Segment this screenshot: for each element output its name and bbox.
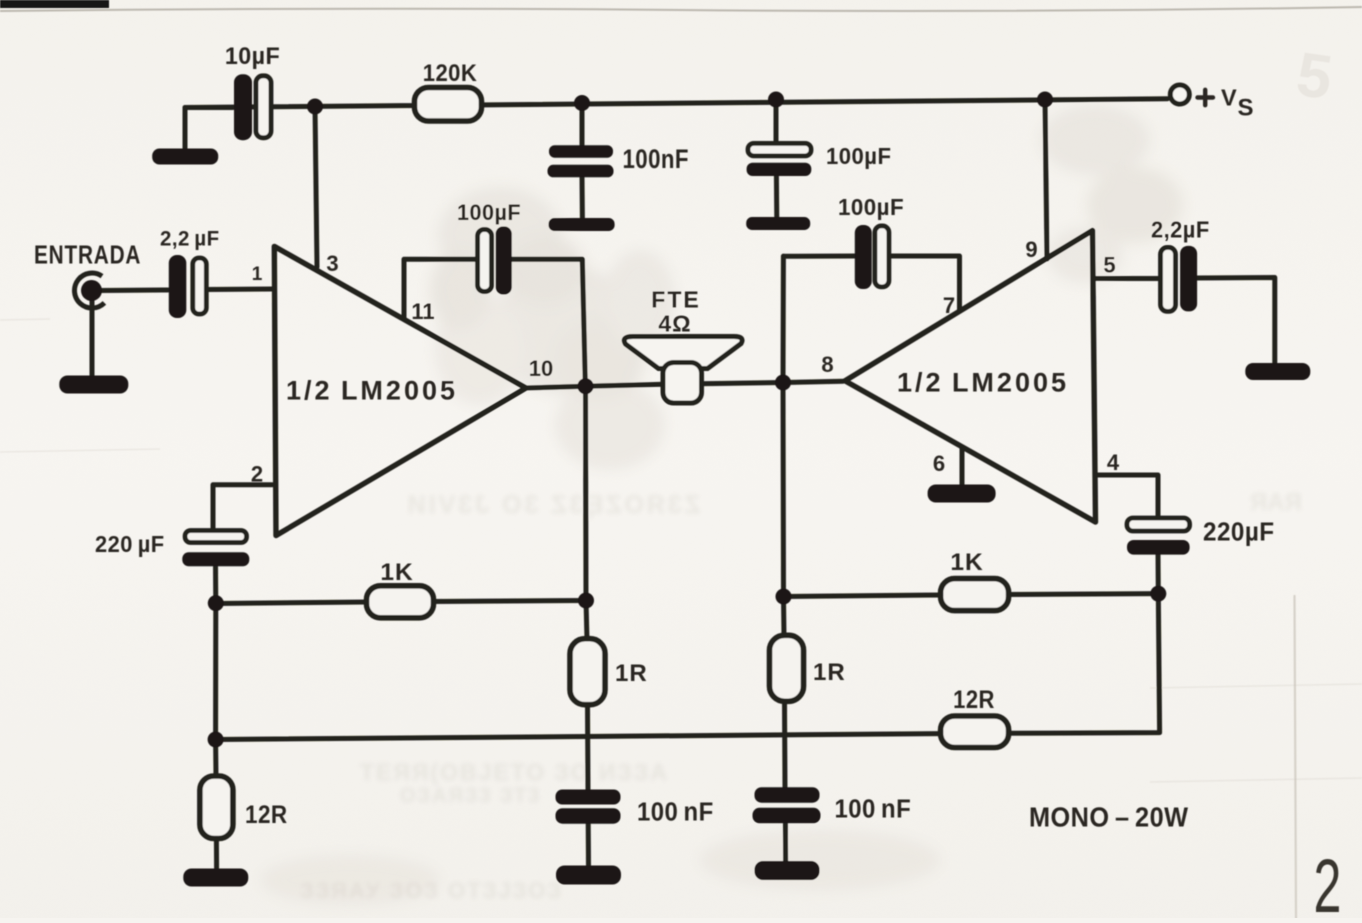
capacitor C5 100uF (- plate) [478, 230, 492, 292]
svg-text:Z3ЯOZĘ3Z 3О J3VIИ: Z3ЯOZĘ3Z 3О J3VIИ [405, 491, 700, 519]
junction J11 (left output lower node) [578, 593, 594, 609]
svg-text:2: 2 [251, 462, 263, 487]
ground G7 (left zobel) [556, 866, 621, 885]
svg-text:ENTRADA: ENTRADA [34, 240, 141, 269]
page artifact: bleed-through ghost blobs [260, 105, 1183, 905]
resistor R8 1R body (right) [770, 635, 804, 701]
capacitor C6 100uF (+ plate) [855, 225, 872, 289]
wire: pin11 feedback loop (left) [404, 259, 479, 318]
resistor R5 1R body (left) [570, 639, 605, 705]
svg-text:11: 11 [411, 299, 434, 324]
resistor R6 12R body (right) [941, 716, 1009, 748]
capacitor C7 100nF (bottom plate, left zobel) [556, 808, 621, 824]
capacitor C2 100nF (top plate) [549, 145, 613, 158]
capacitor C11 220uF (- plate) [182, 552, 249, 566]
wire: 12R to ground G8 [214, 837, 219, 869]
label "4 ohm" [658, 311, 691, 337]
capacitor C3 100uF (- plate) [747, 163, 812, 176]
junction J1 (pin 3 node) [307, 99, 323, 115]
svg-text:8: 8 [821, 352, 833, 377]
wire: C11 to feedback node J10 [213, 564, 218, 604]
svg-text:1/2 LM2005: 1/2 LM2005 [286, 376, 458, 406]
resistor R1 120K body [415, 88, 482, 122]
wire: 100nF to ground G7 (left) [586, 824, 591, 866]
page artifact: faint vertical rule bottom-right [1295, 596, 1297, 918]
capacitor C1 10uF (- plate) [256, 76, 271, 138]
pin label "7" [943, 293, 955, 318]
label "100nF" (left zobel) [637, 798, 714, 827]
svg-text:1R: 1R [813, 659, 846, 686]
junction J9 (right feedback node) [1150, 586, 1166, 602]
wire: 12R long cross-feedback to node J7 [216, 734, 942, 740]
capacitor C4 2.2uF (- plate) [193, 258, 207, 314]
capacitor C9 2.2uF (+ plate) [1180, 246, 1197, 312]
pin label "11" [411, 299, 434, 324]
speaker FTE 4R (magnet box) [663, 363, 702, 404]
resistor R7 12R body (left) [200, 776, 233, 839]
capacitor C3 100uF (+ plate) [748, 143, 811, 156]
pin label "2" [251, 462, 263, 487]
label "100uF" (right feedback) [838, 193, 904, 220]
svg-text:10: 10 [529, 356, 553, 381]
svg-text:1: 1 [252, 264, 263, 285]
ground G9 (right zobel) [755, 861, 820, 880]
label "MONO - 20W" [1029, 802, 1188, 833]
wire: output node J5 down to J11 [583, 386, 589, 600]
resistor R4 1K body (right) [941, 579, 1009, 611]
wire: 1R down across to 100nF (left) [585, 703, 591, 791]
svg-text:12R: 12R [953, 686, 995, 714]
ground G5 (pin 6) [928, 485, 996, 503]
label "1/2 LM2005" (right) [897, 368, 1069, 398]
wire: 1R down across to 100nF (right) [782, 699, 788, 789]
page artifact: faint horizontal streaks [0, 319, 1362, 782]
wire: pin2 to 220uF C11 [213, 485, 272, 532]
wire: node pin3 down from rail [315, 107, 317, 268]
label "1/2 LM2005" (left) [286, 376, 458, 406]
label "100uF" (left feedback) [457, 200, 521, 226]
capacitor C6 100uF (- plate) [875, 226, 889, 287]
svg-text:FTE: FTE [651, 287, 700, 313]
svg-text:ЯАЯ: ЯАЯ [1250, 489, 1302, 516]
label "100uF" (decoupler) [826, 144, 891, 170]
label page number "2" [1314, 844, 1342, 923]
wire: input jack sleeve to ground [90, 291, 95, 377]
svg-text:100 nF: 100 nF [637, 798, 714, 827]
capacitor C8 100nF (top plate, right zobel) [755, 787, 820, 803]
svg-text:100µF: 100µF [838, 193, 904, 220]
page artifact: thin scan line across top [0, 7, 1362, 11]
svg-text:6: 6 [933, 451, 945, 476]
wire: left output / speaker / right output [526, 384, 664, 388]
label "12R" (left) [245, 801, 288, 829]
capacitor C5 100uF (+ plate) [496, 227, 512, 295]
capacitor C10 220uF (- plate) [1127, 540, 1190, 555]
ground G3 (100uF decoupler) [746, 217, 810, 230]
junction J2 (100nF node) [574, 95, 590, 111]
page artifact: black bar top-left edge [0, 0, 109, 8]
svg-text:1R: 1R [615, 660, 648, 687]
svg-text:12R: 12R [245, 801, 288, 829]
label "1K" (right) [950, 549, 983, 576]
svg-text:7: 7 [943, 293, 955, 318]
svg-text:S: S [1238, 95, 1254, 122]
svg-text:100 nF: 100 nF [835, 795, 912, 824]
label "12R" (right) [953, 686, 995, 714]
label "1R" (left) [615, 660, 648, 687]
wire: right feedback top to pin7 [783, 254, 856, 259]
svg-text:2,2µF: 2,2µF [1151, 217, 1210, 243]
wire: 100nF decoupler drop from rail [580, 103, 585, 148]
page artifact: mirrored ghost text rows [300, 489, 1302, 903]
svg-text:100µF: 100µF [826, 144, 891, 170]
wire: 100uF to ground G3 [774, 175, 779, 219]
svg-text:3: 3 [326, 251, 338, 276]
svg-text:ОЗАЯЗ3 ЗТ3: ОЗАЯЗ3 ЗТ3 [400, 785, 541, 807]
wire: 220uF to node J9 [1156, 553, 1161, 595]
connector J-IN (ENTRADA jack) [74, 273, 104, 308]
wire: +V supply rail [185, 99, 1168, 108]
pin label "4" [1107, 450, 1120, 475]
svg-text:1K: 1K [950, 549, 983, 576]
wire: pin5 output to 2.2uF [1095, 276, 1162, 281]
pin label "10" [529, 356, 553, 381]
speaker FTE 4R (cone) [624, 337, 742, 369]
wire: 100nF to ground G5r (right) [783, 824, 788, 862]
svg-text:1/2 LM2005: 1/2 LM2005 [897, 368, 1069, 398]
wire: J8 to 1K (right) [784, 595, 943, 597]
pin label "9" [1025, 237, 1037, 262]
svg-text:ТЕЯЯ(ОВJЕТО ЗО ИЗЗА: ТЕЯЯ(ОВJЕТО ЗО ИЗЗА [360, 759, 669, 785]
svg-text:9: 9 [1025, 237, 1037, 262]
capacitor C2 100nF (bottom plate) [548, 165, 614, 178]
pin label "8" [821, 352, 833, 377]
ground G4 (input jack) [59, 376, 128, 394]
svg-text:ЗЗЯАУ ЗОЗ ОТЗJЗОЗ: ЗЗЯАУ ЗОЗ ОТЗJЗОЗ [300, 878, 563, 903]
svg-text:V: V [1221, 85, 1237, 111]
svg-text:4: 4 [1107, 450, 1120, 475]
junction J8 (right output lower node) [776, 589, 792, 605]
wire: coupling cap to pin 1 [207, 287, 272, 293]
wire: J11 to 1R (left) [586, 601, 587, 641]
wire: pin4 over and down to 220uF [1095, 475, 1158, 520]
label "+ Vs" [1198, 95, 1214, 99]
label "220uF" (right) [1203, 518, 1275, 547]
svg-text:10µF: 10µF [225, 42, 280, 70]
svg-text:4Ω: 4Ω [658, 311, 691, 337]
capacitor C11 220uF (+ plate) [185, 531, 246, 543]
capacitor C4 2.2uF (+ plate) [169, 255, 187, 318]
wire: right feedback riser J6 up [781, 256, 786, 382]
label "220uF" (left) [95, 531, 165, 557]
capacitor C9 2.2uF (- plate) [1161, 247, 1176, 311]
ground G6 (right output return) [1245, 363, 1310, 380]
wire: pin9 supply drop [1045, 100, 1047, 260]
svg-text:220µF: 220µF [1203, 518, 1275, 547]
pin label "1" [252, 264, 263, 285]
terminal +Vs [1170, 85, 1189, 104]
wire: J10 to 1K (left) [216, 602, 368, 604]
ground G1 (10uF bias filter) [152, 149, 218, 165]
svg-text:220 µF: 220 µF [95, 531, 165, 557]
wire: 1K to output node J11 [432, 601, 586, 602]
label "1K" (left) [380, 559, 413, 586]
wire: node J7 down to 12R [213, 740, 218, 779]
wire: 2.2uF to ground drop (right) [1196, 278, 1275, 365]
label "2,2uF" (right) [1151, 217, 1210, 243]
wire: J8 to 1R (right) [781, 597, 787, 638]
wire: pin6 to ground [960, 447, 965, 486]
svg-text:100µF: 100µF [457, 200, 521, 226]
label "2,2uF" (input) [160, 227, 220, 251]
wire: 1K to node J9 (right) [1007, 591, 1158, 597]
label "ENTRADA" [34, 240, 141, 269]
junction J10 (left feedback node) [208, 595, 224, 611]
pin label "6" [933, 451, 945, 476]
capacitor C10 220uF (+ plate) [1127, 518, 1190, 531]
junction J5 (left output node) [578, 378, 594, 394]
svg-text:2: 2 [1314, 844, 1342, 918]
op-amp U1b (1/2 LM2005) triangle [845, 231, 1096, 523]
wire: feedback cap to output drop (left) [511, 259, 586, 384]
label "120K" [423, 59, 478, 86]
junction J7 (left feedback node low) [208, 732, 224, 748]
junction J6 (right output node) [775, 375, 791, 391]
capacitor C7 100nF (top plate, left zobel) [556, 790, 621, 805]
capacitor C1 10uF (+ plate) [234, 74, 252, 140]
label "100nF" (right zobel) [835, 795, 912, 824]
capacitor C8 100nF (bottom plate, right zobel) [753, 808, 821, 824]
wire: 100uF decoupler drop from rail [774, 100, 779, 145]
svg-text:2,2 µF: 2,2 µF [160, 227, 220, 251]
wire: J9 down to 12R row [1007, 594, 1160, 734]
junction J4 (pin 9 node) [1037, 92, 1053, 108]
ground G8 (left 12R) [183, 869, 248, 887]
svg-text:5: 5 [1103, 253, 1115, 278]
pin label "5" [1103, 253, 1115, 278]
svg-text:1K: 1K [380, 559, 413, 586]
wire: input jack to coupling cap [101, 288, 168, 294]
junction J3 (100uF node) [768, 92, 784, 108]
ground G2 (100nF decoupler) [549, 218, 615, 231]
wire: node J6 down to node J8 [781, 383, 787, 597]
wire: 10uF left stub down to ground [185, 108, 233, 152]
resistor R3 1K body (left) [367, 586, 434, 618]
op-amp U1a (1/2 LM2005) triangle [274, 246, 526, 535]
wire: 100nF to ground G2 [580, 176, 585, 221]
svg-text:120K: 120K [423, 59, 478, 86]
label "1R" (right) [813, 659, 846, 686]
pin label "3" [326, 251, 338, 276]
label "FTE" [651, 287, 700, 313]
svg-text:100nF: 100nF [623, 145, 689, 174]
svg-text:MONO – 20W: MONO – 20W [1029, 802, 1188, 833]
label "10uF" [225, 42, 280, 70]
wire: node J10 down to node J7 [213, 603, 218, 739]
label "100nF" [623, 145, 689, 174]
